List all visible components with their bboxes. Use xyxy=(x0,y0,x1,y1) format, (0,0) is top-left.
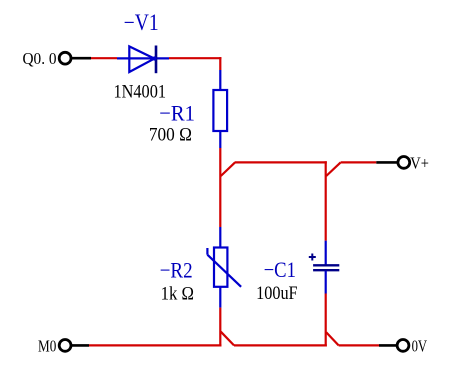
wire corner down to R1 xyxy=(219,57,221,70)
junction diagonal to V+ rail xyxy=(221,162,235,176)
svg-text:700 Ω: 700 Ω xyxy=(149,126,192,146)
svg-text:100uF: 100uF xyxy=(256,284,298,304)
bottom rail R2 to C1 xyxy=(234,344,327,346)
svg-text:0V: 0V xyxy=(412,336,428,355)
svg-text:−R2: −R2 xyxy=(160,257,193,282)
wire Q0.0 to diode xyxy=(91,57,117,59)
wire R2 to bottom rail xyxy=(219,308,221,347)
svg-text:V+: V+ xyxy=(410,154,429,173)
terminal 0V xyxy=(379,340,409,352)
diode V1 xyxy=(117,46,169,74)
terminal M xyxy=(59,340,89,352)
svg-text:M0: M0 xyxy=(38,336,56,355)
junction diagonal R2 bottom xyxy=(221,332,234,346)
bottom rail M to R2 xyxy=(89,344,221,346)
junction diagonal C1 bottom xyxy=(326,332,338,345)
svg-text:−R1: −R1 xyxy=(159,101,195,126)
terminal Q0.0 xyxy=(59,52,91,64)
wire to C1 top corner xyxy=(235,161,327,163)
svg-text:Q0. 0: Q0. 0 xyxy=(23,49,57,68)
resistor R1 xyxy=(213,70,227,148)
resistor R2 (varistor) xyxy=(207,227,241,308)
wire to V+ terminal xyxy=(341,161,377,163)
terminal V+ xyxy=(376,157,409,169)
wire C1 vertical top xyxy=(325,161,327,240)
capacitor C1 xyxy=(309,241,340,294)
svg-text:−V1: −V1 xyxy=(124,10,159,35)
svg-text:−C1: −C1 xyxy=(264,257,296,282)
wire C1 bottom xyxy=(325,294,327,347)
svg-text:1N4001: 1N4001 xyxy=(114,83,167,103)
wire R1 to R2 xyxy=(219,148,221,227)
svg-text:1k Ω: 1k Ω xyxy=(161,285,194,305)
junction diagonal to V+ terminal xyxy=(326,162,340,176)
wire diode to corner xyxy=(169,57,221,59)
bottom rail to 0V terminal xyxy=(339,344,379,346)
